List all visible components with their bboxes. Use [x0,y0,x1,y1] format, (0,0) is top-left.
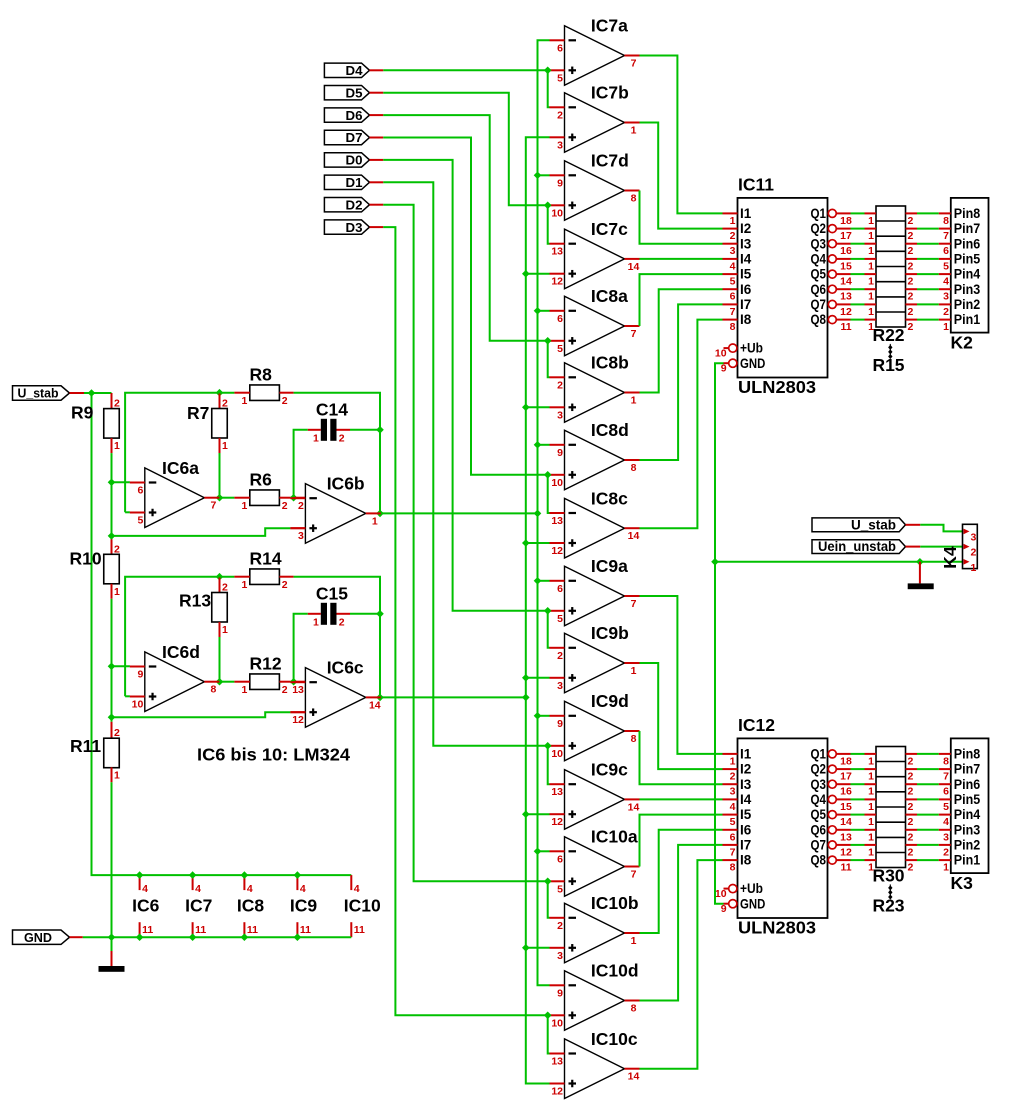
wire D4 to IC7a+ [383,69,547,71]
svg-text:IC9: IC9 [290,896,318,916]
svg-text:IC7b: IC7b [591,83,629,103]
junction GND net to K4 [711,558,719,566]
svg-text:U_stab: U_stab [18,387,59,401]
svg-text:R10: R10 [70,549,102,569]
svg-text:2: 2 [557,920,563,932]
svg-text:1: 1 [631,935,637,947]
resistor R9 [104,409,120,439]
svg-text:IC10c: IC10c [591,1029,638,1049]
svg-text:K2: K2 [951,333,974,353]
svg-text:4: 4 [195,883,201,895]
resistor array pin 1 stub [865,273,877,275]
wire D1 stub [370,181,384,183]
svg-text:1: 1 [868,276,874,288]
pin I6 of IC11 [723,288,738,290]
junction R13-IC6d out [216,678,224,686]
svg-text:Pin3: Pin3 [954,822,981,837]
svg-text:17: 17 [840,771,852,783]
wire to + stub [548,1014,550,1016]
power pin 4 of IC9 [296,875,298,890]
svg-text:4: 4 [300,883,306,895]
power pin 11 of IC6 [139,922,141,937]
svg-text:11: 11 [354,924,365,936]
wire to + stub [548,340,550,342]
svg-text:1: 1 [241,684,247,696]
svg-text:3: 3 [557,680,563,692]
connector pin stub Pin5 [939,798,951,800]
op-amp IC7c [550,219,640,289]
svg-text:Pin1: Pin1 [954,312,981,327]
svg-text:5: 5 [137,515,143,527]
wire R6 pin2 stub [279,497,293,499]
svg-text:12: 12 [840,306,852,318]
svg-text:7: 7 [730,846,736,858]
pin I3 of IC11 [723,243,738,245]
wire to + stub [548,610,550,612]
svg-text:10: 10 [551,207,563,219]
svg-text:R7: R7 [187,403,209,423]
resistor array pin 1 stub [865,258,877,260]
svg-text:4: 4 [943,816,949,828]
wire rail B to IC10b+ [526,947,550,949]
wire rail A to IC10a- [538,850,550,852]
junction rail B at IC7c+ [522,270,530,278]
wire R11.1 to GND rail [111,782,113,937]
svg-text:11: 11 [840,862,851,874]
resistor array pin 1 stub [865,243,877,245]
junction D4 node [544,67,552,75]
resistor array pin 2 stub [906,319,918,321]
svg-text:Pin4: Pin4 [954,807,981,822]
pin GND of IC11 [724,362,729,364]
svg-text:IC8c: IC8c [591,488,628,508]
svg-text:R11: R11 [70,736,101,756]
svg-text:14: 14 [840,816,852,828]
flag U_stab (right) [812,518,906,532]
svg-text:1: 1 [222,440,228,452]
resistor array pin 2 stub [906,273,918,275]
svg-text:14: 14 [628,801,640,813]
svg-text:2: 2 [908,771,914,783]
resistor array pin 2 stub [906,798,918,800]
wire D7 to IC8d+ [383,138,547,475]
pin 1 of K4 [964,559,970,565]
svg-text:13: 13 [551,246,563,258]
junction D1 node [544,742,552,750]
wire to IC6b non-inverting input [112,528,291,536]
svg-text:D4: D4 [346,63,364,78]
wire rail B to IC8b+ [526,406,550,408]
svg-text:13: 13 [292,684,304,696]
wire array to connector [917,768,939,770]
wire Q to resistor array [851,319,865,321]
svg-text:1: 1 [868,786,874,798]
svg-text:2: 2 [908,230,914,242]
wire R14 pin1 stub [234,576,249,578]
svg-text:Pin7: Pin7 [954,762,980,777]
svg-text:Q6: Q6 [811,282,827,297]
connector K4 [963,524,978,568]
svg-text:17: 17 [840,230,852,242]
svg-text:I6: I6 [740,822,752,837]
svg-text:15: 15 [840,260,852,272]
power pin 11 of IC7 [192,922,194,937]
op-amp IC7a [550,16,640,86]
wire array to connector [917,228,939,230]
svg-text:Q3: Q3 [811,236,827,251]
wire R7 pin1 stub [219,438,221,453]
flag D7 [324,130,369,144]
junction C14.2 [376,426,384,434]
svg-text:IC9c: IC9c [591,760,628,780]
wire to + stub [548,474,550,476]
svg-text:9: 9 [721,363,727,375]
wire R10.1 to R11.2 [111,599,113,722]
wire R7.1 down to IC6a output node [219,453,221,498]
power pin 4 of IC6 [139,875,141,890]
svg-text:5: 5 [557,343,563,355]
wire IC8c out to I8 [640,320,723,529]
svg-text:Q2: Q2 [811,221,827,236]
wire IC6b out to rail A [381,512,538,514]
svg-text:14: 14 [628,530,640,542]
wire D2 to IC10b- [548,881,550,918]
power pin 11 of IC10 [350,922,352,937]
wire IC10d out to I7 [640,845,723,1001]
svg-text:R14: R14 [250,549,282,569]
svg-text:11: 11 [247,924,258,936]
svg-text:2: 2 [730,771,736,783]
wire R14.2 to C15.2/IC6c out feedback [294,577,380,698]
svg-text:8: 8 [631,193,637,205]
wire R12 pin1 stub [234,681,249,683]
wire ground stub [111,951,113,966]
op-amp IC6a [130,458,220,528]
svg-text:Q4: Q4 [811,252,827,267]
svg-text:D1: D1 [346,175,363,190]
pin I5 of IC12 [723,814,738,816]
flag U_stab (left) [13,386,70,400]
svg-text:I2: I2 [740,762,751,777]
svg-text:2: 2 [114,543,120,555]
svg-text:1: 1 [241,579,247,591]
op-amp IC8b [550,353,640,423]
wire Q to resistor array [851,798,865,800]
svg-text:1: 1 [868,801,874,813]
svg-text:K4: K4 [940,546,960,569]
svg-text:D2: D2 [346,197,363,212]
svg-text:U_stab: U_stab [851,517,896,532]
wire D7 stub [370,137,384,139]
svg-text:4: 4 [943,276,949,288]
svg-text:10: 10 [551,477,563,489]
svg-text:3: 3 [557,409,563,421]
svg-text:Pin5: Pin5 [954,252,981,267]
wire Uein_unstab stub [906,546,921,548]
svg-text:10: 10 [551,1017,563,1029]
svg-text:D0: D0 [346,153,363,168]
svg-text:3: 3 [730,245,736,257]
wire C14.2 to feedback node [350,429,380,431]
junction R12.2-C15.1-IC6c- [290,678,298,686]
op-amp IC9d [550,691,640,761]
wire rail B to IC8c+ [526,542,550,544]
junction IC6b out [376,510,384,518]
pin I4 of IC12 [723,798,738,800]
svg-text:Pin1: Pin1 [954,853,981,868]
svg-text:15: 15 [840,801,852,813]
svg-text:2: 2 [557,650,563,662]
svg-text:1: 1 [868,771,874,783]
svg-text:6: 6 [137,485,143,497]
wire array to connector [917,814,939,816]
svg-text:12: 12 [551,816,563,828]
wire Q to resistor array [851,273,865,275]
op-amp IC9a [550,556,640,626]
op-amp IC8c [550,488,640,558]
svg-text:IC9d: IC9d [591,691,629,711]
svg-text:1: 1 [868,831,874,843]
flag D4 [324,63,369,77]
svg-text:4: 4 [142,883,148,895]
svg-text:9: 9 [137,669,143,681]
resistor array pin 1 stub [865,753,877,755]
svg-text:IC8d: IC8d [591,420,629,440]
resistor array pin 2 stub [906,783,918,785]
svg-text:2: 2 [339,616,345,628]
svg-text:4: 4 [354,883,360,895]
wire D2 to IC10a+ [383,205,547,882]
junction D6 node [544,337,552,345]
svg-text:1: 1 [868,306,874,318]
wire to IC6a+ stub [125,511,130,513]
pin I7 of IC11 [723,303,738,305]
junction rail B at IC10b+ [522,944,530,952]
svg-text:IC7d: IC7d [591,151,629,171]
IC IC11 ULN2803 [738,198,828,378]
wire IC8b out to I6 [640,289,723,392]
svg-text:7: 7 [210,500,216,512]
wire IC6d+ to R13/R14 node [125,577,234,697]
svg-text:8: 8 [631,462,637,474]
junction rail A at IC10a- [534,848,542,856]
svg-text:14: 14 [628,1071,640,1083]
wire to + stub [548,745,550,747]
resistor array pin 1 stub [865,829,877,831]
wire U_stab to K4 pin3 [920,525,963,532]
svg-text:8: 8 [210,684,216,696]
svg-text:5: 5 [557,72,563,84]
junction D0 node [544,607,552,615]
svg-text:13: 13 [551,515,563,527]
svg-text:IC6a: IC6a [162,458,199,478]
wire IC6d out to R12 [219,681,234,683]
connector pin stub Pin6 [939,783,951,785]
svg-text:1: 1 [313,432,319,444]
svg-text:IC8a: IC8a [591,286,628,306]
svg-text:2: 2 [557,379,563,391]
junction ground symbol [916,558,924,566]
junction R9-IC6b+ [108,532,116,540]
wire array to connector [917,859,939,861]
resistor array pin 2 stub [906,859,918,861]
svg-text:2: 2 [282,579,288,591]
junction R13.2 node [216,573,224,581]
svg-text:IC8: IC8 [237,896,265,916]
pin I1 of IC11 [723,212,738,214]
pin I2 of IC11 [723,228,738,230]
svg-text:I4: I4 [740,252,752,267]
resistor R7 [212,409,228,439]
svg-text:8: 8 [730,862,736,874]
junction rail B at IC8c+ [522,539,530,547]
svg-text:I3: I3 [740,777,752,792]
wire IC6b- stub [294,497,306,499]
wire D0 stub [370,159,384,161]
resistor R10 [104,554,120,584]
wire array to connector [917,288,939,290]
svg-text:2: 2 [222,582,228,594]
svg-text:I1: I1 [740,206,752,221]
junction R10-IC6d [108,663,116,671]
svg-text:IC8b: IC8b [591,353,629,373]
wire Q to resistor array [851,303,865,305]
svg-text:8: 8 [943,755,949,767]
svg-text:8: 8 [631,1003,637,1015]
power pin 4 of IC10 [350,875,352,890]
wire R13 pin2 stub [219,578,221,593]
svg-text:I3: I3 [740,236,752,251]
svg-text:6: 6 [730,831,736,843]
svg-text:GND: GND [740,896,766,911]
resistor R6 [250,490,280,506]
svg-text:IC10d: IC10d [591,961,639,981]
svg-text:Q5: Q5 [811,807,827,822]
svg-text:1: 1 [943,862,949,874]
IC IC12 ULN2803 [738,738,828,918]
svg-text:Q8: Q8 [811,312,827,327]
svg-text:7: 7 [631,598,637,610]
array range arrow [889,884,891,897]
svg-text:6: 6 [557,583,563,595]
connector pin stub Pin1 [939,859,951,861]
svg-text:3: 3 [298,530,304,542]
wire Uein_unstab to K4 pin2 [920,546,963,548]
resistor array pin 2 stub [906,814,918,816]
wire array to connector [917,258,939,260]
svg-text:9: 9 [557,987,563,999]
wire IC6a+ to R7/R8 node [125,393,234,513]
svg-text:1: 1 [971,562,977,574]
svg-text:Q2: Q2 [811,762,827,777]
svg-text:K3: K3 [951,873,974,893]
svg-text:IC7a: IC7a [591,16,628,36]
svg-text:1: 1 [313,616,319,628]
op-amp IC10d [550,961,640,1031]
wire D0 to IC9b- [548,611,550,648]
wire D7 to IC8c- [548,475,550,513]
op-amp IC8a [550,286,640,356]
junction D7 node [544,471,552,479]
svg-text:6: 6 [943,245,949,257]
op-amp IC9b [550,623,640,693]
junction D5 node [544,202,552,210]
svg-text:ULN2803: ULN2803 [738,377,816,397]
svg-text:Q5: Q5 [811,267,827,282]
svg-text:R8: R8 [250,365,273,385]
wire to IC6d+ stub [125,695,130,697]
svg-text:Pin5: Pin5 [954,792,981,807]
svg-text:D5: D5 [346,85,363,100]
wire IC6c out to rail B [381,696,526,698]
wire D6 stub [370,114,384,116]
connector pin stub Pin8 [939,212,951,214]
svg-text:2: 2 [908,245,914,257]
svg-text:IC9b: IC9b [591,623,629,643]
wire Q to resistor array [851,814,865,816]
svg-text:Q1: Q1 [811,206,827,221]
svg-text:2: 2 [282,395,288,407]
svg-text:13: 13 [840,831,852,843]
svg-text:9: 9 [721,903,727,915]
wire to IC6c non-inverting input [112,712,291,717]
svg-text:3: 3 [730,786,736,798]
resistor R13 [212,593,228,623]
svg-text:9: 9 [557,718,563,730]
svg-text:D7: D7 [346,130,363,145]
svg-text:5: 5 [730,816,736,828]
svg-text:6: 6 [557,853,563,865]
svg-text:16: 16 [840,786,852,798]
wire IC10c out to I8 [640,860,723,1069]
svg-text:8: 8 [730,321,736,333]
op-amp IC6b [290,474,380,544]
junction rail A at IC8d- [534,441,542,449]
svg-text:9: 9 [557,177,563,189]
wire D3 stub [370,226,384,228]
wire IC9a out to I1 [640,596,723,754]
wire IC6c+ stub [290,711,305,713]
svg-text:IC12: IC12 [738,715,775,735]
wire U_stab stub (right) [906,524,921,526]
svg-text:1: 1 [943,321,949,333]
svg-text:6: 6 [730,291,736,303]
wire GND stub [70,936,83,938]
svg-text:GND: GND [740,356,766,371]
svg-text:IC6b: IC6b [327,474,365,494]
wire rail B to IC9c+ [526,813,550,815]
flag Uein_unstab [812,540,906,554]
resistor array pin 2 stub [906,228,918,230]
svg-text:Q7: Q7 [811,297,827,312]
svg-text:2: 2 [222,398,228,410]
svg-text:1: 1 [868,291,874,303]
svg-text:16: 16 [840,245,852,257]
op-amp IC6c [290,658,380,728]
op-amp IC8d [550,420,640,490]
svg-text:1: 1 [868,260,874,272]
pin I8 of IC12 [723,859,738,861]
connector pin stub Pin2 [939,844,951,846]
wire D6 to IC8b- [548,341,550,378]
junction pin4 rail at IC8 [241,871,249,879]
wire R8 pin2 stub [279,392,293,394]
wire IC9b out to I2 [640,663,723,769]
pin I7 of IC12 [723,844,738,846]
junction GND rail at IC8 [241,933,249,941]
resistor R11 [104,738,120,768]
wire Q to resistor array [851,768,865,770]
